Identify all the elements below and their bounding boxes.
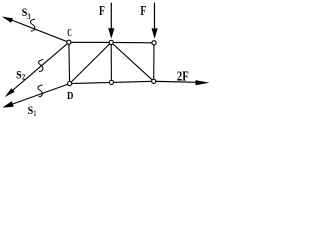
svg-text:F: F [99,3,105,18]
node BM [109,80,113,84]
svg-text:1: 1 [34,109,36,118]
svg-text:S: S [28,103,34,117]
force F2 arrow line [154,3,156,30]
arrow force S1 [2,101,13,108]
wire vertical TM to BM [110,42,112,82]
arrow force S2 [5,88,15,97]
force F1 arrow line [110,3,112,30]
wire member S2 cut [10,42,69,92]
node C [67,40,71,44]
node D [68,82,72,86]
svg-text:2: 2 [22,72,25,81]
force F1 arrowhead [108,28,114,38]
svg-text:2F: 2F [177,70,189,85]
wire bottom chord BM to BR [111,81,153,82]
cut squiggle on S2 [39,59,44,71]
arrow force S3 [2,17,13,23]
node BR [152,79,156,83]
wire bottom chord D to BM [70,82,112,83]
node TR [152,41,156,45]
force F2 arrowhead [152,28,158,38]
wire diagonal TM to BR [111,42,154,81]
force 2F arrow line [156,80,198,83]
node TM [109,40,113,44]
cut squiggle on S3 [30,19,35,31]
svg-text:3: 3 [27,12,30,21]
wire top chord TM to TR [111,41,154,43]
wire vertical C to D [68,42,71,83]
wire member S3 cut [9,19,69,42]
svg-text:C: C [67,28,72,39]
wire top chord C to TM [69,41,111,43]
wire member S1 cut [10,84,70,106]
svg-text:D: D [67,90,73,102]
cut squiggle on S1 [38,85,43,97]
force 2F arrowhead [196,80,210,85]
svg-text:F: F [140,3,146,18]
wire vertical TR to BR [153,43,155,82]
wire diagonal D to TM [70,42,112,83]
